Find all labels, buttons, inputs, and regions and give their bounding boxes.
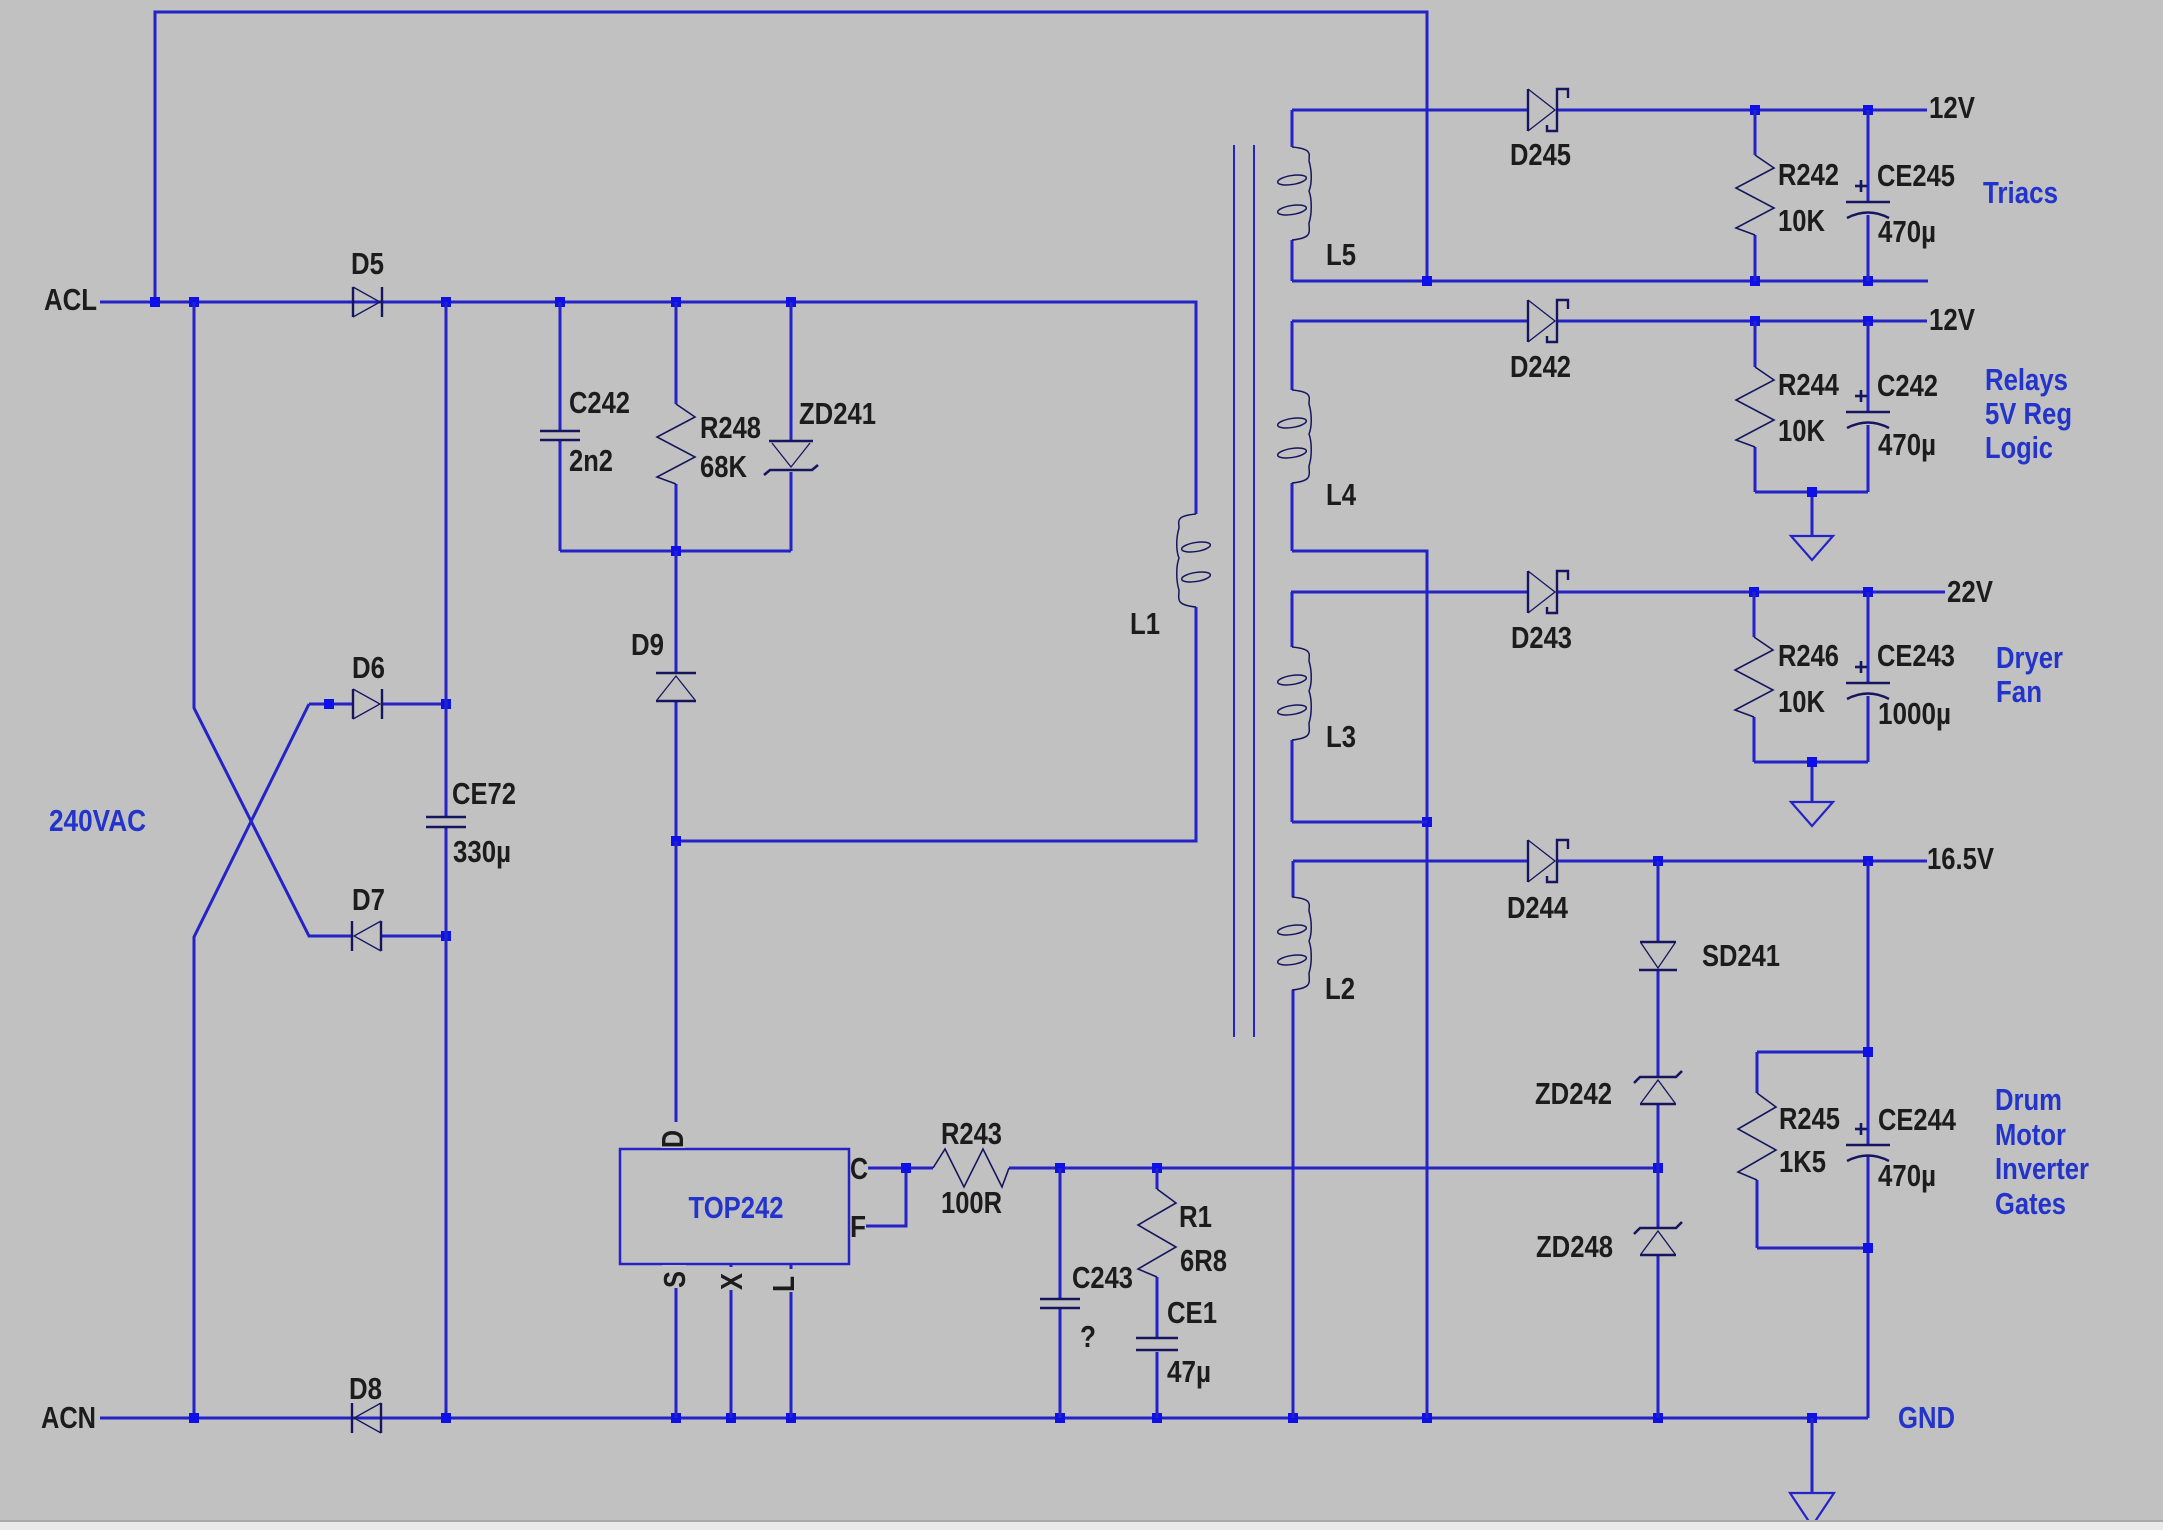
capacitor C242 output plus bbox=[1855, 395, 1867, 398]
capacitor CE245 plus bbox=[1855, 185, 1867, 188]
svg-text:D5: D5 bbox=[351, 246, 384, 281]
wire D6 cathode to CE72 bbox=[382, 703, 446, 706]
resistor R242 bbox=[1736, 155, 1774, 235]
wire C pin bbox=[868, 1167, 933, 1170]
wire D6 anode stub bbox=[309, 703, 353, 706]
capacitor CE244 plus bbox=[1855, 1128, 1867, 1131]
svg-text:D: D bbox=[655, 1130, 690, 1148]
node D6 wire junctions bbox=[324, 699, 334, 709]
wire C242 output leads bbox=[1867, 321, 1870, 492]
svg-text:L2: L2 bbox=[1325, 971, 1355, 1006]
wire R245 loop bottom bbox=[1757, 1247, 1868, 1250]
node fan ground junction bbox=[1807, 757, 1817, 767]
node ACN junctions bbox=[189, 1413, 199, 1423]
capacitor C242 snubber bbox=[540, 430, 580, 432]
diode D9 bbox=[656, 672, 696, 675]
svg-text:D9: D9 bbox=[631, 627, 664, 662]
svg-text:Relays: Relays bbox=[1985, 362, 2068, 397]
svg-text:R246: R246 bbox=[1778, 638, 1839, 673]
wire L pin bbox=[790, 1264, 793, 1418]
wire R242 leads bbox=[1754, 110, 1757, 281]
node feedback junctions bbox=[1055, 1163, 1065, 1173]
svg-text:L3: L3 bbox=[1326, 719, 1356, 754]
svg-text:Logic: Logic bbox=[1985, 430, 2053, 465]
svg-text:D245: D245 bbox=[1510, 137, 1571, 172]
node snubber bottom junction bbox=[671, 546, 681, 556]
wire D9 branch bbox=[675, 551, 678, 841]
node C/F junction bbox=[901, 1163, 911, 1173]
resistor R243 bbox=[933, 1149, 1009, 1187]
pin X label bbox=[719, 1267, 743, 1290]
svg-text:D243: D243 bbox=[1511, 620, 1572, 655]
capacitor C242 output bbox=[1846, 411, 1890, 413]
svg-text:C242: C242 bbox=[1877, 368, 1938, 403]
svg-text:L1: L1 bbox=[1130, 606, 1160, 641]
ground relay section bbox=[1791, 536, 1833, 560]
svg-text:CE243: CE243 bbox=[1877, 638, 1955, 673]
diode D244 bbox=[1527, 840, 1529, 882]
resistor R245 bbox=[1738, 1093, 1776, 1180]
svg-text:R1: R1 bbox=[1179, 1199, 1212, 1234]
pin L label bbox=[771, 1269, 795, 1292]
transformer core bbox=[1233, 145, 1235, 1037]
svg-text:D242: D242 bbox=[1510, 349, 1571, 384]
svg-text:C: C bbox=[850, 1151, 868, 1186]
wire ACL rail and L1 top lead bbox=[100, 302, 1196, 514]
node 16.5V rail junctions bbox=[1653, 856, 1663, 866]
capacitor CE1 bbox=[1136, 1337, 1178, 1339]
svg-text:10K: 10K bbox=[1778, 684, 1826, 719]
svg-text:Inverter: Inverter bbox=[1995, 1151, 2089, 1186]
wire L4 top rail 12V bbox=[1292, 320, 1927, 323]
inductor L2 winding bbox=[1292, 897, 1311, 990]
zener diode ZD241 bbox=[769, 440, 813, 443]
wire CE244 feed bbox=[1867, 861, 1870, 1418]
svg-text:R248: R248 bbox=[700, 410, 761, 445]
diode D245 bbox=[1527, 89, 1529, 131]
svg-text:R243: R243 bbox=[941, 1116, 1002, 1151]
node L1 bottom junction bbox=[671, 836, 681, 846]
svg-text:ACL: ACL bbox=[44, 282, 97, 317]
node R245 bottom junction bbox=[1863, 1243, 1873, 1253]
svg-text:Fan: Fan bbox=[1996, 674, 2042, 709]
svg-text:ZD241: ZD241 bbox=[799, 396, 876, 431]
ground main GND bbox=[1790, 1493, 1834, 1526]
node 12V rail junctions bbox=[1750, 105, 1760, 115]
svg-text:C243: C243 bbox=[1072, 1260, 1133, 1295]
wire L1 bottom return bbox=[676, 607, 1196, 841]
svg-text:5V Reg: 5V Reg bbox=[1985, 396, 2072, 431]
svg-text:Dryer: Dryer bbox=[1996, 640, 2063, 675]
pin S label bbox=[662, 1265, 686, 1288]
svg-text:12V: 12V bbox=[1929, 90, 1975, 125]
wire L5 leads bbox=[1291, 110, 1294, 281]
wire L3 leads bbox=[1291, 592, 1294, 822]
resistor R244 bbox=[1736, 367, 1774, 447]
svg-text:240VAC: 240VAC bbox=[49, 803, 146, 838]
svg-text:470µ: 470µ bbox=[1878, 427, 1936, 462]
wire F pin bbox=[866, 1168, 906, 1226]
capacitor CE244 bbox=[1846, 1144, 1890, 1146]
diode D8 bbox=[380, 1403, 382, 1433]
svg-text:330µ: 330µ bbox=[453, 834, 511, 869]
capacitor CE245 bbox=[1846, 201, 1890, 203]
wire R248 branch bbox=[675, 302, 678, 551]
wire S pin bbox=[675, 1264, 678, 1418]
svg-text:ZD242: ZD242 bbox=[1535, 1076, 1612, 1111]
node ACL junctions bbox=[150, 297, 160, 307]
resistor R1 bbox=[1138, 1189, 1176, 1277]
svg-text:GND: GND bbox=[1898, 1400, 1955, 1435]
node L5 return junctions bbox=[1422, 276, 1432, 286]
node 12V relay rail junctions bbox=[1750, 316, 1760, 326]
wire L2 top rail 16.5V bbox=[1293, 860, 1927, 863]
wire CE243 leads bbox=[1867, 592, 1870, 762]
wire L3 bottom return bbox=[1292, 821, 1427, 824]
svg-text:L: L bbox=[766, 1276, 801, 1292]
diode SD241 bbox=[1640, 941, 1676, 944]
node L4/L3 return junction bbox=[1422, 817, 1432, 827]
svg-text:68K: 68K bbox=[700, 449, 748, 484]
wire R1-CE1 branch bbox=[1156, 1168, 1159, 1418]
svg-text:CE245: CE245 bbox=[1877, 158, 1955, 193]
wire 240VAC right leg (cross) bbox=[194, 704, 309, 1418]
IC U1 TOP242 box bbox=[620, 1149, 849, 1264]
svg-text:L5: L5 bbox=[1326, 237, 1356, 272]
wire CE245 leads bbox=[1867, 110, 1870, 281]
wire D7 cathode stub bbox=[381, 935, 446, 938]
wire control feedback line bbox=[1009, 1167, 1658, 1170]
node relay ground junction bbox=[1807, 487, 1817, 497]
inductor L5 winding bbox=[1292, 147, 1311, 240]
svg-text:12V: 12V bbox=[1929, 302, 1975, 337]
wire fan section ground loop bbox=[1754, 762, 1868, 802]
wire zener chain bbox=[1657, 861, 1660, 1418]
wire L4 leads bbox=[1291, 321, 1294, 551]
svg-text:D244: D244 bbox=[1507, 890, 1569, 925]
capacitor C243 bbox=[1040, 1298, 1080, 1300]
svg-text:100R: 100R bbox=[941, 1185, 1002, 1220]
wire R245 leads bbox=[1756, 1052, 1759, 1248]
wire CE72 branch vertical bbox=[445, 302, 448, 1418]
svg-text:R242: R242 bbox=[1778, 157, 1839, 192]
svg-text:TOP242: TOP242 bbox=[689, 1190, 784, 1225]
ground fan section bbox=[1791, 802, 1833, 826]
inductor L1 primary winding bbox=[1177, 514, 1196, 607]
svg-text:D6: D6 bbox=[352, 650, 385, 685]
svg-text:Gates: Gates bbox=[1995, 1186, 2066, 1221]
svg-text:Motor: Motor bbox=[1995, 1117, 2066, 1152]
capacitor CE243 bbox=[1846, 682, 1890, 684]
wire L2 leads bbox=[1292, 861, 1295, 1418]
svg-text:10K: 10K bbox=[1778, 203, 1826, 238]
capacitor CE72 bbox=[426, 816, 466, 818]
node D7 junction bbox=[441, 931, 451, 941]
svg-text:?: ? bbox=[1080, 1319, 1096, 1354]
svg-text:CE72: CE72 bbox=[452, 776, 516, 811]
wire R244 leads bbox=[1754, 321, 1757, 492]
svg-text:Drum: Drum bbox=[1995, 1082, 2062, 1117]
svg-text:CE1: CE1 bbox=[1167, 1295, 1217, 1330]
resistor R248 bbox=[657, 404, 695, 484]
svg-text:R245: R245 bbox=[1779, 1101, 1840, 1136]
svg-text:L4: L4 bbox=[1326, 477, 1357, 512]
wire snubber bottom bbox=[560, 550, 791, 553]
svg-text:470µ: 470µ bbox=[1878, 214, 1936, 249]
diode D7 bbox=[380, 921, 382, 951]
svg-text:R244: R244 bbox=[1778, 367, 1840, 402]
svg-text:S: S bbox=[657, 1271, 692, 1288]
svg-text:1K5: 1K5 bbox=[1779, 1144, 1826, 1179]
inductor L3 winding bbox=[1292, 647, 1311, 740]
wire 240VAC left leg upper bbox=[194, 302, 352, 936]
node 22V rail junctions bbox=[1749, 587, 1759, 597]
wire main ground stem bbox=[1811, 1418, 1814, 1493]
svg-text:10K: 10K bbox=[1778, 413, 1826, 448]
svg-text:D8: D8 bbox=[349, 1371, 382, 1406]
svg-text:ACN: ACN bbox=[41, 1400, 96, 1435]
node R245 top junction bbox=[1863, 1047, 1873, 1057]
svg-text:F: F bbox=[850, 1209, 866, 1244]
wire L3 top rail 22V bbox=[1291, 591, 1945, 594]
svg-text:16.5V: 16.5V bbox=[1927, 841, 1994, 876]
svg-text:D7: D7 bbox=[352, 882, 385, 917]
svg-text:22V: 22V bbox=[1947, 574, 1993, 609]
svg-text:X: X bbox=[714, 1273, 749, 1290]
pin D label bbox=[661, 1122, 685, 1148]
svg-text:1000µ: 1000µ bbox=[1878, 696, 1951, 731]
svg-text:47µ: 47µ bbox=[1167, 1354, 1211, 1389]
diode D242 bbox=[1527, 300, 1529, 342]
diode D6 bbox=[352, 689, 354, 719]
zener diode ZD242 bbox=[1634, 1071, 1682, 1083]
svg-text:2n2: 2n2 bbox=[569, 443, 613, 478]
svg-text:ZD248: ZD248 bbox=[1536, 1229, 1613, 1264]
wire ZD241 branch bbox=[790, 302, 793, 551]
wire R245 loop top bbox=[1757, 1051, 1868, 1054]
wire X pin bbox=[730, 1264, 733, 1418]
wire relay section ground loop bbox=[1755, 492, 1868, 536]
resistor R246 bbox=[1735, 637, 1773, 717]
svg-text:Triacs: Triacs bbox=[1983, 175, 2058, 210]
wire L5 top rail 12V bbox=[1292, 109, 1927, 112]
wire L4 bottom return bbox=[1292, 551, 1427, 1418]
svg-text:C242: C242 bbox=[569, 385, 630, 420]
wire C243 branch bbox=[1059, 1168, 1062, 1418]
svg-text:6R8: 6R8 bbox=[1180, 1243, 1227, 1278]
inductor L4 winding bbox=[1292, 390, 1311, 483]
wire top primary loop (ACL to transformer feed) bbox=[155, 12, 1427, 302]
wire L5 bottom return rail bbox=[1292, 280, 1928, 283]
wire ACN rail bbox=[100, 1417, 1868, 1420]
svg-text:SD241: SD241 bbox=[1702, 938, 1780, 973]
diode D243 bbox=[1527, 571, 1529, 613]
wire D pin feed bbox=[675, 841, 678, 1149]
capacitor CE243 plus bbox=[1855, 666, 1867, 669]
diode D5 bbox=[352, 287, 354, 317]
svg-text:CE244: CE244 bbox=[1878, 1102, 1957, 1137]
wire C242 snubber branch bbox=[559, 302, 562, 551]
svg-text:470µ: 470µ bbox=[1878, 1158, 1936, 1193]
wire R246 leads bbox=[1753, 592, 1756, 762]
zener diode ZD248 bbox=[1634, 1222, 1682, 1234]
